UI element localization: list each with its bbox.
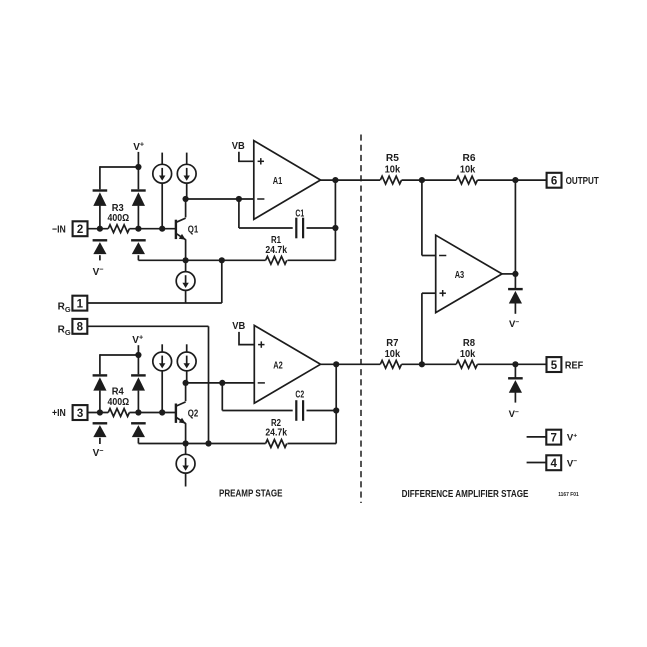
pin 8 box bbox=[72, 319, 87, 334]
wire bbox=[222, 383, 292, 411]
wire bbox=[137, 345, 139, 355]
wire bbox=[100, 166, 138, 189]
wire bbox=[422, 180, 436, 255]
pin 2 box bbox=[73, 221, 88, 236]
diode (REF clamp to V-) bbox=[508, 378, 523, 392]
svg-text:Q1: Q1 bbox=[188, 225, 199, 236]
wire bbox=[99, 206, 101, 229]
node junction bbox=[332, 177, 338, 183]
svg-text:1: 1 bbox=[77, 298, 84, 310]
label R7 bbox=[386, 338, 399, 349]
svg-text:A1: A1 bbox=[273, 176, 283, 187]
svg-text:VB: VB bbox=[232, 140, 245, 152]
svg-text:10k: 10k bbox=[460, 165, 476, 176]
label 24.7k (R2) bbox=[265, 427, 287, 438]
svg-text:4: 4 bbox=[551, 458, 558, 470]
diode (clamp, column 2 lower, stage 2) bbox=[131, 423, 146, 437]
svg-text:5: 5 bbox=[551, 360, 558, 372]
svg-text:R5: R5 bbox=[386, 153, 399, 164]
wire bbox=[307, 227, 336, 229]
wire bbox=[186, 371, 188, 383]
node junction bbox=[333, 361, 339, 367]
wire bbox=[514, 392, 516, 402]
resistor R7 bbox=[380, 360, 401, 368]
current source I1 bbox=[153, 153, 172, 184]
wire bbox=[129, 412, 175, 414]
label OUTPUT bbox=[566, 176, 599, 187]
current source I6 (tail, stage 2) bbox=[176, 444, 195, 487]
capacitor C1 bbox=[296, 218, 303, 239]
label 10k (R7) bbox=[385, 349, 401, 360]
wire bbox=[239, 332, 254, 345]
label 24.7k bbox=[265, 245, 287, 256]
svg-text:10k: 10k bbox=[460, 349, 476, 360]
current source I3 (tail, stage 1) bbox=[176, 260, 195, 303]
wire bbox=[137, 354, 139, 412]
svg-text:8: 8 bbox=[77, 322, 84, 334]
node junction bbox=[219, 380, 225, 386]
label Q1 bbox=[188, 225, 199, 236]
wire bbox=[138, 443, 265, 445]
diode (clamp, V+ column 2) bbox=[131, 191, 146, 206]
op-amp A1 bbox=[254, 141, 321, 220]
label 1167 F01 bbox=[558, 492, 579, 498]
svg-text:7: 7 bbox=[551, 432, 557, 444]
label RG (pin 8) bbox=[58, 325, 71, 337]
wire bbox=[161, 371, 163, 413]
label R8 bbox=[463, 338, 476, 349]
node junction bbox=[97, 226, 103, 232]
wire bbox=[138, 259, 265, 261]
resistor R4 bbox=[108, 409, 129, 417]
wire bbox=[402, 179, 457, 181]
node junction bbox=[135, 352, 141, 358]
wire bbox=[100, 354, 138, 374]
svg-text:24.7k: 24.7k bbox=[265, 427, 287, 438]
wire bbox=[99, 438, 101, 444]
wire bbox=[186, 183, 188, 199]
wire bbox=[99, 391, 101, 413]
wire bbox=[514, 303, 516, 314]
node junction bbox=[135, 164, 141, 170]
wire bbox=[137, 152, 139, 167]
node junction bbox=[159, 409, 165, 415]
svg-text:R8: R8 bbox=[463, 338, 476, 349]
label R6 bbox=[463, 153, 476, 164]
label 10k (R6) bbox=[460, 165, 476, 176]
label C2 bbox=[295, 390, 304, 401]
wire bbox=[288, 364, 337, 443]
pin 5 box bbox=[547, 357, 562, 372]
pin 3 box bbox=[73, 405, 88, 420]
wire bbox=[288, 180, 336, 260]
op-amp A2 bbox=[254, 325, 320, 403]
diode (clamp, V- to -IN, left) bbox=[93, 240, 108, 254]
wire bbox=[137, 255, 139, 260]
svg-text:10k: 10k bbox=[385, 349, 401, 360]
resistor R1 bbox=[266, 256, 287, 264]
svg-text:R7: R7 bbox=[386, 338, 399, 349]
wire bbox=[321, 179, 381, 181]
wire bbox=[321, 363, 381, 365]
pin 4 box bbox=[546, 455, 561, 470]
svg-text:+IN: +IN bbox=[52, 408, 66, 419]
wire bbox=[88, 326, 209, 443]
label 10k (R5) bbox=[385, 165, 401, 176]
node junction bbox=[333, 407, 339, 413]
label 10k (R8) bbox=[460, 349, 476, 360]
wire bbox=[527, 462, 547, 464]
node junction bbox=[512, 361, 518, 367]
label V+ (pin 7) bbox=[567, 433, 577, 444]
wire bbox=[502, 273, 515, 275]
resistor R6 bbox=[456, 176, 477, 184]
wire bbox=[88, 412, 109, 414]
resistor R3 bbox=[108, 225, 129, 233]
label DIFFERENCE AMPLIFIER STAGE bbox=[402, 489, 529, 500]
node junction bbox=[97, 409, 103, 415]
separator (dashed boundary) bbox=[360, 135, 362, 504]
svg-text:C1: C1 bbox=[295, 209, 304, 220]
svg-text:3: 3 bbox=[77, 408, 83, 420]
wire bbox=[307, 410, 337, 412]
label REF bbox=[565, 361, 583, 372]
wire bbox=[99, 255, 101, 260]
label 400Ω (R4) bbox=[108, 397, 130, 408]
resistor R5 bbox=[380, 176, 401, 184]
wire bbox=[527, 436, 547, 438]
node junction bbox=[205, 440, 211, 446]
wire bbox=[186, 198, 254, 200]
svg-text:24.7k: 24.7k bbox=[265, 245, 287, 256]
wire bbox=[477, 179, 546, 181]
pin 6 box bbox=[547, 173, 562, 188]
node junction bbox=[419, 361, 425, 367]
svg-text:REF: REF bbox=[565, 361, 583, 372]
resistor R8 bbox=[456, 360, 477, 368]
diode (clamp, -IN to V+, left) bbox=[93, 191, 108, 206]
label R1 bbox=[271, 235, 281, 246]
label RG (pin 1) bbox=[58, 301, 71, 313]
node junction bbox=[219, 257, 225, 263]
node V+ (stage 2 supply) bbox=[132, 333, 143, 346]
wire bbox=[402, 363, 457, 365]
node junction bbox=[512, 177, 518, 183]
wire bbox=[88, 228, 109, 230]
wire bbox=[186, 382, 255, 384]
label C1 bbox=[295, 209, 304, 220]
pin 1 box bbox=[72, 296, 87, 311]
svg-text:OUTPUT: OUTPUT bbox=[566, 176, 599, 187]
svg-text:10k: 10k bbox=[385, 165, 401, 176]
label R4 bbox=[112, 387, 124, 398]
label 400Ω bbox=[108, 213, 130, 224]
svg-text:400Ω: 400Ω bbox=[108, 213, 130, 224]
label V- (pin 4) bbox=[567, 458, 577, 469]
svg-text:2: 2 bbox=[77, 224, 83, 236]
wire bbox=[422, 293, 436, 364]
wire bbox=[239, 199, 293, 228]
diode (A3 output clamp to V-) bbox=[508, 289, 523, 303]
wire bbox=[185, 199, 187, 260]
svg-text:C2: C2 bbox=[295, 390, 304, 401]
svg-text:DIFFERENCE AMPLIFIER STAGE: DIFFERENCE AMPLIFIER STAGE bbox=[402, 489, 529, 500]
label R2 bbox=[271, 418, 281, 429]
label V- (stage 1) bbox=[93, 265, 104, 278]
wire bbox=[161, 183, 163, 229]
transistor Q2 bbox=[176, 402, 186, 424]
current source I2 bbox=[177, 153, 196, 184]
svg-text:A2: A2 bbox=[273, 361, 283, 372]
svg-text:PREAMP STAGE: PREAMP STAGE bbox=[219, 488, 283, 499]
svg-text:VB: VB bbox=[232, 320, 245, 332]
node junction bbox=[135, 409, 141, 415]
label R5 bbox=[386, 153, 399, 164]
label V- (REF clamp) bbox=[509, 409, 519, 420]
label R3 bbox=[112, 203, 124, 214]
node junction bbox=[183, 380, 189, 386]
wire bbox=[477, 363, 546, 365]
label -IN bbox=[52, 224, 66, 235]
diode (clamp, V- to +IN, left) bbox=[93, 423, 108, 437]
wire bbox=[185, 383, 187, 444]
node junction bbox=[183, 196, 189, 202]
svg-text:A3: A3 bbox=[455, 270, 465, 281]
svg-text:6: 6 bbox=[551, 175, 557, 187]
node junction bbox=[236, 196, 242, 202]
wire bbox=[239, 152, 254, 162]
op-amp A3 bbox=[436, 235, 502, 312]
current source I4 bbox=[153, 344, 172, 371]
node junction bbox=[135, 226, 141, 232]
label V- (stage 2) bbox=[93, 446, 104, 459]
wire bbox=[88, 260, 222, 303]
wire bbox=[137, 166, 139, 229]
pin 7 box bbox=[546, 430, 561, 445]
node junction bbox=[332, 225, 338, 231]
diode (clamp, V+ column 2, stage 2) bbox=[131, 375, 146, 390]
node V+ (stage 1 supply) bbox=[133, 140, 144, 153]
label +IN bbox=[52, 408, 66, 419]
svg-text:−IN: −IN bbox=[52, 224, 66, 235]
label Q2 bbox=[188, 408, 199, 419]
node junction bbox=[512, 271, 518, 277]
node junction bbox=[183, 440, 189, 446]
label V- (A3 clamp) bbox=[509, 319, 519, 330]
node junction bbox=[183, 257, 189, 263]
svg-text:R6: R6 bbox=[463, 153, 476, 164]
node VB (A1 bias) bbox=[232, 140, 245, 152]
node VB (A2 bias) bbox=[232, 320, 245, 332]
wire bbox=[129, 228, 175, 230]
wire bbox=[514, 364, 516, 377]
wire bbox=[514, 180, 516, 288]
resistor R2 bbox=[266, 440, 287, 448]
svg-text:1167 F01: 1167 F01 bbox=[558, 492, 579, 498]
transistor Q1 bbox=[176, 218, 186, 240]
diode (clamp, +IN to V+, left) bbox=[93, 375, 108, 390]
wire bbox=[137, 438, 139, 444]
svg-text:Q2: Q2 bbox=[188, 408, 199, 419]
capacitor C2 bbox=[296, 400, 303, 421]
svg-text:400Ω: 400Ω bbox=[108, 397, 130, 408]
diode (clamp, column 2 lower) bbox=[131, 240, 146, 254]
node junction bbox=[159, 226, 165, 232]
node junction bbox=[419, 177, 425, 183]
label PREAMP STAGE bbox=[219, 488, 283, 499]
current source I5 bbox=[177, 344, 196, 371]
